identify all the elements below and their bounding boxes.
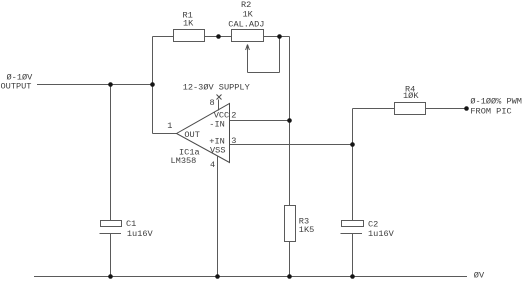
- svg-text:2: 2: [231, 110, 236, 120]
- svg-text:12-3ØV SUPPLY: 12-3ØV SUPPLY: [183, 83, 250, 93]
- svg-text:CAL.ADJ: CAL.ADJ: [228, 19, 264, 29]
- svg-text:LM358: LM358: [171, 156, 197, 166]
- svg-text:3: 3: [231, 136, 236, 146]
- svg-text:VSS: VSS: [210, 146, 225, 156]
- svg-text:Ø-1ØØ% PWM: Ø-1ØØ% PWM: [470, 97, 522, 107]
- svg-text:1K5: 1K5: [299, 225, 314, 235]
- svg-text:8: 8: [210, 98, 215, 108]
- svg-text:C2: C2: [368, 219, 378, 229]
- svg-text:C1: C1: [126, 219, 136, 229]
- svg-text:-IN: -IN: [209, 120, 224, 130]
- svg-text:1K: 1K: [243, 10, 254, 20]
- svg-text:1u16V: 1u16V: [368, 229, 395, 239]
- svg-text:FROM PIC: FROM PIC: [470, 107, 511, 117]
- svg-text:1u16V: 1u16V: [127, 229, 154, 239]
- svg-text:R2: R2: [241, 0, 251, 10]
- svg-text:4: 4: [210, 160, 215, 170]
- svg-text:1ØK: 1ØK: [403, 91, 419, 101]
- svg-text:1K: 1K: [183, 19, 194, 29]
- svg-text:1: 1: [167, 121, 172, 131]
- svg-text:OUTPUT: OUTPUT: [1, 81, 32, 91]
- svg-text:OUT: OUT: [184, 130, 199, 140]
- svg-text:ØV: ØV: [474, 271, 485, 281]
